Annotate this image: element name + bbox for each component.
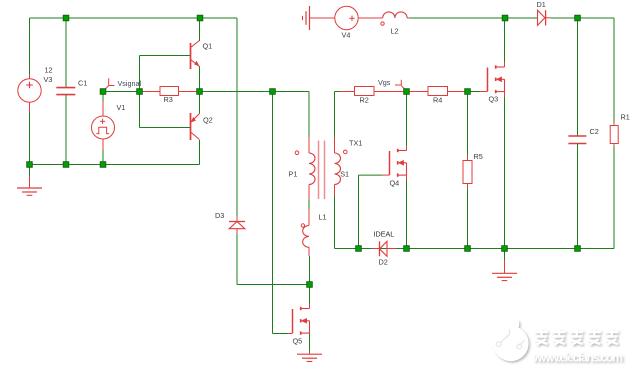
polarity dot L1 [301,224,304,227]
wire L2 to node [407,17,505,19]
label P1 [289,170,298,179]
wire Q2 base stub [140,127,191,129]
junction node 15 [356,246,362,252]
svg-text:D1: D1 [537,0,546,9]
label Q5 [293,336,303,345]
svg-text:V3: V3 [44,75,53,84]
wire R1 bottom lead [578,147,615,249]
junction node 18 [502,246,508,252]
wire bottom bus [335,248,615,250]
resistor R3 [160,87,179,96]
wire Q1 emitter to node [199,67,201,92]
wire gnd to V4 [310,17,335,19]
wire x237 vertical to D3 [236,18,238,222]
svg-text:C2: C2 [590,127,599,136]
resistor R4 [428,87,448,96]
wire Q4 gate [359,175,390,248]
wire node to D1 [505,17,538,19]
wire C2 top lead [577,18,579,136]
svg-text:TX1: TX1 [349,138,362,147]
wire D1 to C2 node [551,17,578,19]
junction node 5 [100,89,106,95]
transformer P1 winding [309,153,315,185]
junction node 13 [100,162,106,168]
wire top-left V+ rail [30,17,238,19]
svg-text:D2: D2 [379,257,388,266]
wire C1 top lead [65,18,67,88]
label L2 [391,27,399,36]
wire top right corner [578,18,615,122]
junction node 4 [575,15,581,21]
transformer core [319,141,325,200]
resistor R5 [463,161,472,184]
wire D2 right lead [387,248,407,250]
pulse source V1 [92,101,115,150]
resistor R1 [610,126,618,144]
svg-text:R3: R3 [164,95,173,104]
wire to Q5 gate [273,333,293,335]
probe Vsignal [104,78,114,90]
junction node 9 [404,89,410,95]
resistor R2 [355,87,375,96]
svg-text:Q1: Q1 [203,42,213,51]
label Q1 [203,42,213,51]
svg-text:12: 12 [45,66,53,75]
label V1 [117,103,126,112]
svg-text:L1: L1 [319,213,327,222]
junction node 17 [465,246,471,252]
svg-text:Q3: Q3 [489,94,499,103]
label TX1 [349,138,362,147]
svg-text:R5: R5 [474,152,483,161]
inductor L1 [303,226,309,248]
ground GND2 lead [504,249,506,274]
transistor Q2 [191,113,200,140]
label R3 [164,95,173,104]
wire R2 to node [374,91,407,93]
wire long gate line [272,92,274,334]
wire C2 bottom lead [577,144,579,249]
polarity dot P1 [295,151,299,155]
label D1 [537,0,546,9]
wire Q2 collector drop [199,140,201,165]
ground GND1 lead [29,165,31,189]
svg-text:Vsignal: Vsignal [118,79,142,88]
junction node 11 [27,162,33,168]
svg-text:Q2: Q2 [203,116,213,125]
svg-text:Q4: Q4 [390,179,400,188]
wire L1 bottom lead [308,247,311,284]
junction node 16 [404,246,410,252]
svg-text:R1: R1 [621,113,630,122]
label D3 [215,211,224,220]
junction node 8 [270,89,276,95]
svg-text:P1: P1 [289,170,298,179]
wire C1 bottom lead [65,95,67,165]
wire mid bus R3 to P1 node [200,91,273,93]
junction node 2 [197,15,203,21]
label Q3 [489,94,499,103]
wire S1 bottom lead [334,196,336,249]
ground GND-V4 [303,6,310,30]
label Vsignal [118,79,142,88]
polarity dot L2 [381,22,384,25]
wire bottom horizontal to L1 node [237,284,310,286]
label V4 [342,31,351,40]
wire V1 bottom lead [102,150,104,165]
transformer S1 winding [335,153,341,185]
label Q4 [390,179,400,188]
diode D2 [380,241,388,256]
capacitor C2 [568,136,586,144]
svg-text:C1: C1 [78,79,87,88]
label S1 [340,170,349,179]
label IDEAL [374,230,395,239]
label C2 [590,127,599,136]
wire S1 top [334,92,336,197]
junction node 19 [575,246,581,252]
wire node to Q3 gate [468,91,488,93]
junction node 3 [502,15,508,21]
junction node 14 [307,282,313,288]
wire L1 node to Q5 drain [309,285,311,309]
wire P1 top [273,92,310,154]
wire Q1 collector drop [199,18,201,41]
svg-text:Vgs: Vgs [378,78,391,87]
label R5 [474,152,483,161]
mosfet Q3 [488,65,505,93]
label V3 [44,75,53,84]
label L1 [319,213,327,222]
wire V1 top lead [102,94,104,101]
diode D1 [538,10,551,25]
wire S1 node to R2 [335,91,355,93]
resistor R3 leads [140,91,200,93]
label Vgs [378,78,391,87]
wire node to R4 [407,91,429,93]
voltage source V3 [18,74,41,112]
wire node to R3 [103,91,140,93]
wire D3 bottom to bus [236,229,238,285]
junction node 12 [63,162,69,168]
label R2 [360,96,369,105]
wire left rail down to V3 [29,18,31,79]
transistor Q1 [191,41,200,70]
ground GND3 [297,354,322,361]
wire Q3 drain [504,18,506,67]
label R4 [433,96,442,105]
svg-text:V4: V4 [342,31,351,40]
wire V3 bottom lead [29,112,31,165]
mosfet Q4 [390,149,407,177]
wire Q5 source lead [309,333,311,354]
wire P1 to L1 [308,185,310,226]
label C1 [78,79,87,88]
junction node 10 [465,89,471,95]
junction node 7 [197,89,203,95]
svg-text:IDEAL: IDEAL [374,230,395,239]
svg-text:R4: R4 [433,96,442,105]
svg-text:D3: D3 [215,211,224,220]
svg-text:L2: L2 [391,27,399,36]
ground GND2 [492,273,517,280]
diode D3 [229,222,245,229]
label Q2 [203,116,213,125]
wire D2 left lead [359,248,380,250]
wire V4 to L2 [358,17,383,19]
wire base ladder vertical [139,56,141,128]
svg-text:V1: V1 [117,103,126,112]
wire R4 to node [448,91,468,93]
wire Q1 base stub [140,55,191,57]
wire bottom-left ground bus [30,164,200,166]
resistor R1 leads [613,122,615,147]
voltage source V4 [335,6,358,29]
probe Vgs [395,80,406,91]
capacitor C1 [56,88,75,95]
wire R5 bottom lead [467,184,469,249]
inductor L2 [383,12,407,18]
svg-text:S1: S1 [340,170,349,179]
wire Q4 drain [406,92,408,151]
mosfet Q5 [293,307,310,335]
label 12 [45,66,53,75]
label R1 [621,113,630,122]
wire Q3 source [504,92,506,249]
wire R5 top lead [467,92,469,161]
junction node 6 [137,89,143,95]
svg-text:R2: R2 [360,96,369,105]
wire node to Q2 emitter [199,92,201,114]
ground GND1 [17,188,42,195]
svg-text:Q5: Q5 [293,336,303,345]
wire Q4 source [406,175,408,248]
label D2 [379,257,388,266]
watermark elecfans logo and text [493,320,623,364]
polarity dot S1 [344,150,348,154]
svg-text:www.elecfans.com: www.elecfans.com [532,351,623,365]
junction node 1 [63,15,69,21]
